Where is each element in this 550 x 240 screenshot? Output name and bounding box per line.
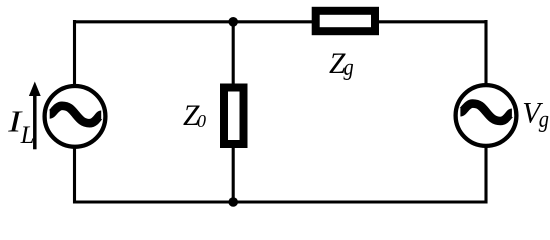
wire top rail left (node A to Zg)	[75, 20, 316, 23]
wire middle vertical lower	[232, 145, 235, 202]
wire right vertical lower	[484, 147, 487, 204]
current arrow shaft	[33, 93, 37, 149]
node junction dot bottom	[228, 197, 238, 207]
svg-text:L: L	[20, 122, 35, 149]
source IL circle	[45, 86, 106, 147]
current arrow head	[29, 82, 41, 97]
wire bottom rail	[75, 200, 487, 203]
svg-text:0: 0	[197, 111, 206, 131]
node junction dot top	[228, 17, 238, 27]
source Vg sine	[460, 104, 512, 121]
source Vg circle	[456, 85, 517, 146]
wire left vertical upper	[73, 20, 76, 86]
impedance Z0 body	[224, 88, 244, 145]
wire top rail right (Zg to Vg)	[376, 20, 486, 23]
svg-text:g: g	[344, 53, 354, 80]
wire right vertical upper	[484, 20, 487, 86]
wire middle vertical upper	[232, 22, 235, 89]
wire left vertical lower	[73, 147, 76, 204]
source IL sine	[50, 106, 101, 123]
impedance Zg body	[316, 11, 375, 31]
svg-text:g: g	[539, 105, 549, 132]
